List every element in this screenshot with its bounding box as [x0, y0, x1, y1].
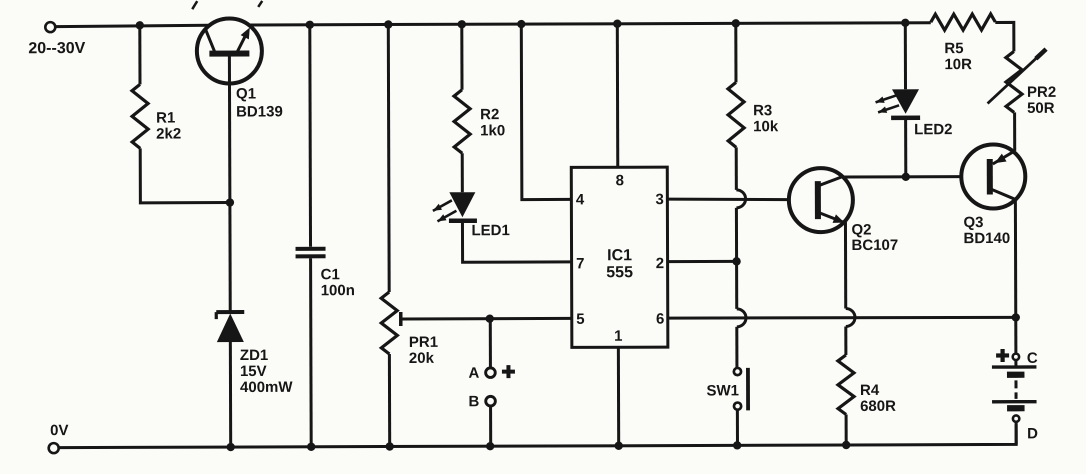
battery dashed middle [1014, 380, 1017, 398]
wire Q3 collector down [1014, 198, 1017, 317]
label Q1 [236, 85, 283, 120]
battery cell 2 [992, 402, 1037, 409]
node B bottom rail junction [486, 442, 494, 450]
wire Q2 collector to Q3 base [843, 175, 961, 178]
pin 5 label [576, 311, 584, 328]
pin 6 label [656, 311, 664, 328]
transistor Q3 base bar [987, 159, 993, 194]
stray mark 1 [192, 1, 197, 9]
label IC1 [606, 247, 633, 281]
node R1 top rail junction [136, 21, 144, 29]
svg-text:R1: R1 [156, 110, 175, 127]
node PR1 top rail junction [384, 20, 392, 28]
terminal 20-30V input [28, 22, 85, 57]
transistor Q2 circle [789, 168, 853, 232]
LED1 light arrows [433, 200, 457, 221]
svg-text:R4: R4 [860, 382, 880, 399]
svg-text:50R: 50R [1027, 100, 1055, 117]
node LED2 junction [902, 173, 910, 181]
label PR1 [409, 334, 438, 367]
svg-text:10R: 10R [944, 56, 972, 73]
svg-text:8: 8 [616, 172, 624, 189]
node Q1 base junction [226, 198, 234, 206]
wire R2 to LED1 [461, 153, 464, 192]
label Q2 [851, 221, 898, 254]
wire pin 3 to Q2 base [667, 199, 790, 200]
wire R1 top lead [138, 25, 141, 84]
wire Q2 collector lead [819, 177, 843, 186]
stray mark 2 [258, 1, 262, 7]
svg-text:A: A [468, 365, 479, 382]
transistor Q2 base bar [815, 181, 821, 219]
svg-text:2k2: 2k2 [156, 125, 181, 142]
wire hop over pin6 line [737, 309, 746, 327]
svg-text:1k0: 1k0 [480, 122, 505, 139]
svg-text:5: 5 [576, 311, 584, 328]
wire Q2 emitter lead [819, 212, 846, 223]
resistor R2 [454, 90, 505, 154]
preset PR1 [381, 292, 401, 354]
wire to R4 [844, 326, 847, 354]
label C1 [321, 266, 355, 299]
wire pin 4 to rail [521, 24, 571, 200]
label LED2 [914, 121, 952, 138]
svg-text:R2: R2 [480, 106, 499, 123]
node C1 bottom rail junction [307, 443, 315, 451]
node wiper junction A [486, 314, 494, 322]
wire PR1 wiper to pin 5 [402, 317, 571, 321]
wire Q1 collector lead [205, 28, 216, 54]
wire R3 top lead [734, 23, 737, 82]
svg-text:BD139: BD139 [236, 103, 283, 120]
terminal B [469, 393, 496, 410]
LED LED2 [891, 89, 920, 118]
wire pin 8 to rail [616, 24, 619, 167]
pin 1 label [614, 328, 622, 345]
wire top rail middle [249, 23, 930, 25]
svg-text:B: B [469, 393, 480, 410]
svg-text:20--30V: 20--30V [28, 40, 85, 57]
wire bottom rail [59, 424, 1016, 447]
terminal A [468, 365, 495, 382]
wire hop over pin3 line [736, 190, 745, 208]
label ZD1 [240, 347, 294, 396]
svg-text:IC1: IC1 [607, 247, 632, 264]
label PR2 [1027, 84, 1056, 117]
node R3 top rail junction [732, 19, 740, 27]
svg-text:PR1: PR1 [409, 334, 438, 351]
transistor Q1 base bar [209, 50, 249, 56]
svg-text:4: 4 [576, 191, 585, 208]
wire C1 bottom lead [309, 258, 313, 446]
node pin8 rail junction [613, 20, 621, 28]
svg-text:SW1: SW1 [706, 382, 739, 399]
label LED1 [471, 222, 509, 239]
svg-text:7: 7 [576, 255, 584, 272]
svg-text:680R: 680R [860, 398, 896, 415]
capacitor C1 [296, 249, 326, 257]
wire Q1 emitter lead [236, 27, 250, 53]
wire ZD1 anode to bottom rail [229, 342, 232, 447]
node pin 2 junction [732, 257, 740, 265]
svg-text:C1: C1 [321, 266, 340, 283]
terminal C [1013, 350, 1038, 367]
svg-text:Q3: Q3 [963, 214, 983, 231]
node PR1 bottom rail junction [385, 442, 393, 450]
svg-text:2: 2 [656, 255, 664, 272]
wire Q3 collector lead [992, 189, 1016, 199]
resistor R4 [838, 355, 896, 415]
wire Q2 emitter down [844, 222, 847, 308]
pin 3 label [656, 191, 664, 208]
PR2 wiper arrow [987, 47, 1047, 103]
op-amp IC1 555 box [571, 167, 668, 347]
wire SW1 to bottom rail [736, 410, 739, 445]
transistor Q3 circle [961, 144, 1025, 208]
resistor R1 [132, 84, 181, 148]
wire C to battery [1014, 360, 1017, 367]
svg-text:LED1: LED1 [471, 222, 509, 239]
wire top rail right corner to PR2 [995, 22, 1014, 51]
node pin6 battery junction [1012, 313, 1020, 321]
wire junction to terminal C [1014, 317, 1017, 352]
wire to SW1 [735, 327, 738, 367]
wire pin 1 to bottom rail [617, 347, 620, 445]
wire R4 to bottom rail [845, 414, 848, 444]
wire R1 bottom to Q1 base [140, 148, 230, 203]
svg-text:ZD1: ZD1 [240, 347, 268, 364]
svg-text:3: 3 [656, 191, 664, 208]
wire pin 6 to battery column [668, 317, 1016, 319]
svg-text:100n: 100n [321, 282, 355, 299]
svg-text:LED2: LED2 [914, 121, 952, 138]
svg-text:15V: 15V [240, 363, 267, 380]
svg-text:Q2: Q2 [851, 221, 871, 238]
wire LED2 to Q3 base row [904, 120, 907, 177]
node R4 bottom rail junction [842, 441, 850, 449]
wire Q3 emitter lead [993, 151, 1015, 164]
pin 8 label [616, 172, 624, 189]
plus mark at C [996, 349, 1009, 362]
svg-text:10k: 10k [753, 118, 779, 135]
node ZD1 bottom rail junction [226, 443, 234, 451]
battery cell 1 [992, 367, 1037, 375]
pin 2 label [656, 255, 664, 272]
wire PR1 bottom lead [388, 354, 391, 446]
node R2 top rail junction [458, 20, 466, 28]
preset PR2 [1006, 51, 1022, 112]
wire LED2 top lead [904, 23, 907, 89]
svg-text:Q1: Q1 [236, 85, 256, 102]
node LED2 rail junction [901, 19, 909, 27]
wire hop over pin6 line right [846, 308, 855, 326]
wire R3 bottom lead [735, 147, 738, 189]
svg-text:R5: R5 [944, 40, 963, 57]
wire to terminal A [489, 319, 492, 367]
wire C1 top lead [308, 25, 312, 247]
svg-text:D: D [1027, 425, 1038, 442]
wire R3 column middle [735, 208, 738, 309]
wire LED1 to pin 7 [462, 222, 571, 262]
zener diode ZD1 [216, 312, 244, 342]
svg-text:0V: 0V [50, 422, 68, 439]
wire PR2 to Q3 emitter [1013, 112, 1016, 150]
svg-text:555: 555 [606, 264, 633, 281]
svg-text:C: C [1027, 350, 1038, 367]
wire PR1 top lead [387, 25, 391, 292]
node C1 top rail junction [306, 21, 314, 29]
svg-text:20k: 20k [409, 350, 435, 367]
switch SW1 [706, 368, 748, 411]
node pin1 bottom rail junction [614, 442, 622, 450]
svg-text:6: 6 [656, 311, 664, 328]
wire R2 top lead [460, 24, 463, 89]
LED LED1 [449, 192, 477, 221]
terminal D [1013, 415, 1038, 442]
wire pin 2 to R3 column [668, 260, 737, 263]
svg-text:1: 1 [614, 328, 622, 345]
pin 7 label [576, 255, 584, 272]
transistor Q1 circle [197, 18, 262, 83]
svg-text:R3: R3 [753, 102, 772, 119]
terminal 0V [49, 422, 69, 453]
svg-text:BC107: BC107 [852, 237, 899, 254]
svg-text:BD140: BD140 [963, 230, 1010, 247]
wire terminal B to bottom rail [489, 407, 492, 446]
svg-text:400mW: 400mW [240, 379, 293, 396]
node pin4 rail junction [517, 20, 525, 28]
node SW1 bottom rail junction [733, 441, 741, 449]
label Q3 [963, 214, 1010, 247]
svg-text:PR2: PR2 [1027, 84, 1056, 101]
LED2 light arrows [876, 95, 900, 113]
resistor R3 [728, 82, 779, 147]
wire top rail left [55, 25, 209, 26]
wire D to bottom rail [1015, 421, 1018, 444]
resistor R5 [931, 14, 996, 73]
pin 4 label [576, 191, 585, 208]
plus mark at A [502, 365, 515, 378]
wire Q1 base lead down [228, 57, 232, 312]
